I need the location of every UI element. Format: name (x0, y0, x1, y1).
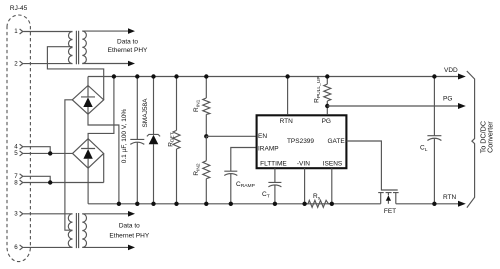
svg-text:5: 5 (14, 150, 18, 157)
wire -VIN down (304, 168, 306, 204)
wire D1 left corner down to T2 center tap (65, 100, 73, 230)
arrow PG (458, 103, 466, 109)
bridge rectifier D1 (72, 86, 103, 115)
transformer T1 secondary winding (82, 31, 86, 63)
svg-text:-VIN: -VIN (297, 161, 310, 168)
capacitor CL (433, 77, 435, 204)
svg-text:3: 3 (14, 210, 18, 217)
RJ-45 connector outline (7, 15, 30, 262)
svg-text:Ethernet PHY: Ethernet PHY (108, 47, 148, 54)
svg-text:0.1 µF, 100 V, 10%: 0.1 µF, 100 V, 10% (121, 109, 128, 164)
svg-text:Converter: Converter (486, 121, 495, 153)
wire GATE to FET (347, 141, 398, 190)
svg-text:IRAMP: IRAMP (258, 145, 279, 152)
capacitor 0.1uF plates (130, 139, 144, 144)
resistor RIN1 (205, 77, 207, 137)
node pins 7-8 (48, 180, 52, 184)
T1 secondary bottom wire (82, 63, 128, 65)
wire pin1 to T1 (23, 31, 72, 33)
wire D2 right corner to pins 7-8 (103, 153, 105, 182)
svg-text:FET: FET (384, 208, 396, 215)
svg-text:FLTTIME: FLTTIME (260, 161, 287, 168)
node top rail dots (112, 74, 116, 78)
wire FLTTIME to CT (274, 168, 276, 182)
svg-text:Ethernet PHY: Ethernet PHY (109, 232, 149, 239)
brace to DC/DC converter (467, 71, 475, 208)
svg-text:TPS2399: TPS2399 (287, 138, 314, 145)
svg-text:Data to: Data to (119, 223, 140, 230)
svg-text:Data to: Data to (117, 39, 138, 46)
wire pin5 to bridge D2 (23, 152, 72, 154)
resistor RDET (176, 77, 178, 204)
T1 center tap wire to bridge D1 right corner (47, 47, 103, 100)
wire pin3 to T2 (23, 213, 72, 215)
node PG (325, 104, 329, 108)
node EN (204, 134, 208, 138)
transformer T2 primary winding (68, 214, 72, 248)
wire EN to IC (206, 135, 255, 137)
wire D1 top corner to top rail (87, 77, 89, 86)
bridge rectifier D2 (73, 139, 104, 169)
T1 secondary top wire (82, 30, 128, 32)
wire pin2 to T1 (23, 63, 72, 65)
resistor RIN2 (205, 136, 207, 204)
wire pin6 to T2 (23, 246, 72, 248)
node pins 4-5 (48, 151, 52, 155)
arrow to Ethernet PHY bottom (128, 61, 135, 67)
T2 secondary bottom wire (82, 246, 128, 248)
wire pins 7-8 to bridge D2 (23, 182, 104, 184)
top rail (RTN/VDD) (88, 76, 459, 78)
wire D1 bottom corner to RTN bottom rail (88, 114, 119, 204)
capacitor CT (268, 182, 281, 203)
resistor Rs (305, 200, 332, 207)
svg-text:6: 6 (14, 244, 18, 251)
wire D2 top corner to top rail (88, 77, 114, 139)
resistor RPULL_UP (326, 77, 328, 107)
D1 diode (81, 86, 95, 115)
transformer T2 core (76, 213, 78, 248)
svg-text:PG: PG (443, 96, 452, 103)
transformer T2 secondary winding (82, 214, 86, 248)
wire ISENS down (331, 168, 333, 204)
svg-text:RTN: RTN (443, 194, 457, 201)
wire pin4 (23, 147, 50, 154)
T2 secondary top wire (82, 213, 128, 215)
capacitor CRAMP (224, 171, 237, 204)
capacitor 0.1uF line (136, 77, 138, 204)
arrow to Ethernet PHY top (128, 28, 135, 34)
TVS diode SMAJ58A (153, 77, 155, 204)
svg-text:RTN: RTN (280, 118, 294, 125)
wire pin7 (23, 176, 50, 182)
svg-text:2: 2 (14, 60, 18, 67)
IC TPS2399 (257, 115, 347, 168)
wire D2 bottom corner to bottom rail (87, 168, 89, 204)
svg-text:RJ-45: RJ-45 (10, 5, 28, 12)
svg-text:1: 1 (14, 28, 18, 35)
wire PG output (327, 105, 458, 107)
arrow VDD (458, 74, 466, 80)
D2 diode (81, 139, 95, 169)
FET (378, 192, 398, 194)
svg-text:GATE: GATE (327, 138, 345, 145)
svg-text:VDD: VDD (444, 67, 458, 74)
arrow RTN (458, 201, 466, 207)
svg-text:SMAJ58A: SMAJ58A (142, 98, 149, 128)
arrow to Ethernet PHY bottom (128, 245, 135, 251)
bottom rail (-VIN) (88, 203, 458, 205)
transformer T1 core (76, 31, 78, 65)
svg-text:ISENS: ISENS (323, 161, 343, 168)
svg-text:8: 8 (14, 179, 18, 186)
transformer T1 primary winding (68, 32, 72, 64)
node bottom rail dots (117, 202, 121, 206)
wire IRAMP to CRAMP (231, 148, 256, 172)
svg-text:PG: PG (322, 118, 331, 125)
arrow to Ethernet PHY top (128, 211, 135, 217)
svg-text:EN: EN (258, 133, 267, 140)
